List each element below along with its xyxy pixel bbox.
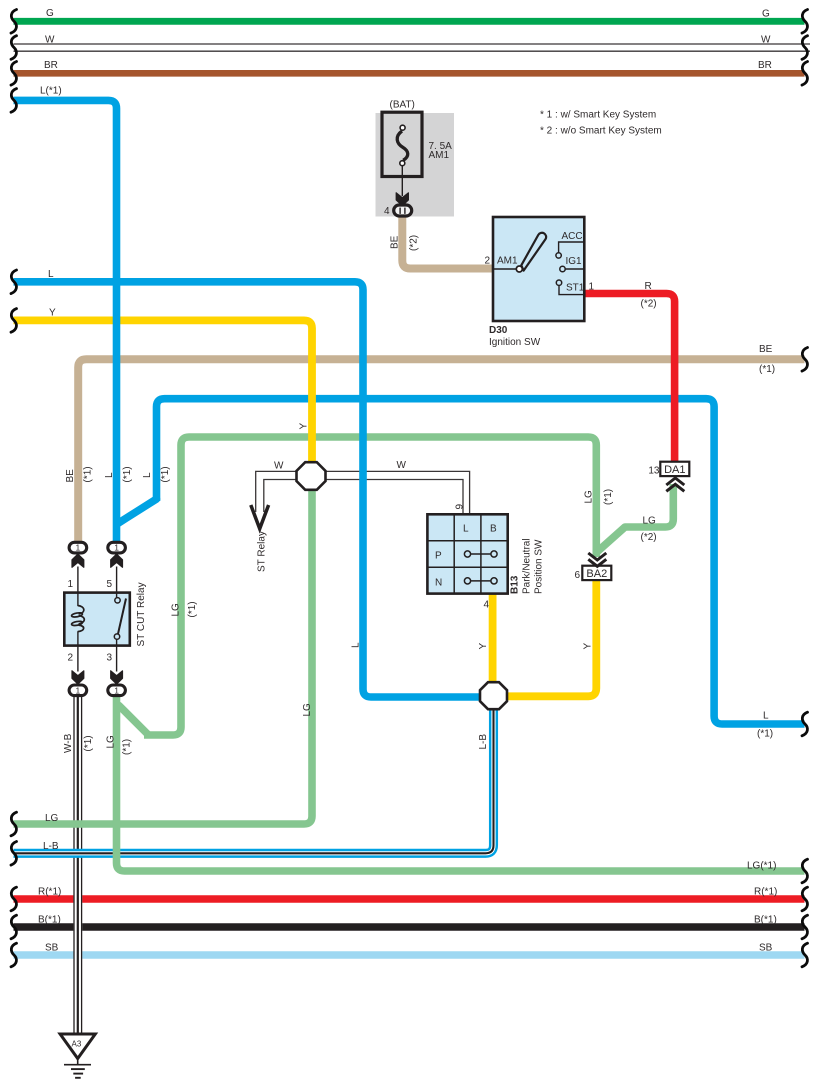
svg-text:ST1: ST1 bbox=[566, 283, 585, 294]
switch B13 park/neutral table bbox=[427, 514, 507, 593]
svg-text:B(*1): B(*1) bbox=[754, 915, 777, 926]
D30 labels bbox=[484, 231, 594, 348]
svg-text:LG: LG bbox=[643, 516, 657, 527]
svg-text:BE: BE bbox=[390, 235, 401, 249]
arrow down into connector II bbox=[396, 193, 408, 206]
svg-text:B: B bbox=[490, 524, 497, 535]
relay arrow down pin3 bbox=[111, 671, 123, 684]
connector 1 relay pin5 top bbox=[108, 542, 126, 553]
svg-text:W: W bbox=[761, 35, 771, 46]
wire BE tan rail to left vertical bbox=[78, 359, 804, 541]
wire LG(*1) green: relay pin3 down to bottom rail right bbox=[117, 697, 805, 871]
B13 table labels bbox=[435, 524, 497, 611]
svg-text:B(*1): B(*1) bbox=[38, 915, 61, 926]
svg-text:BE: BE bbox=[65, 469, 76, 483]
svg-text:SB: SB bbox=[759, 943, 773, 954]
wire L blue diagonal merge into x116 column bbox=[117, 499, 157, 524]
svg-text:1: 1 bbox=[114, 685, 119, 695]
connector 1 relay pin2 bottom bbox=[69, 685, 87, 696]
connector 1 relay pin3 bottom bbox=[108, 685, 126, 696]
D30 ST1 terminal bbox=[559, 286, 584, 295]
svg-text:BA2: BA2 bbox=[586, 568, 607, 580]
wire Y yellow rail to octagon J1 bbox=[14, 320, 313, 463]
wire W right arm octagon to B13 pin 9 bbox=[322, 471, 470, 514]
svg-text:L: L bbox=[763, 711, 769, 722]
relay arrow up pin5 bbox=[111, 554, 123, 567]
label R (*2) red wire bbox=[641, 281, 657, 310]
node labels: left rail names bbox=[38, 8, 62, 954]
svg-text:1: 1 bbox=[76, 543, 81, 553]
svg-text:6: 6 bbox=[574, 570, 580, 581]
svg-text:L: L bbox=[350, 642, 361, 648]
node octagon J1 bbox=[297, 462, 326, 490]
svg-text:(*1): (*1) bbox=[122, 466, 133, 482]
wire LG(*1) green: up column x181, top row y437, down to BA2 chevron bbox=[144, 437, 596, 735]
svg-text:LG: LG bbox=[302, 703, 313, 717]
relay pin5 line bbox=[116, 567, 118, 599]
svg-text:(*1): (*1) bbox=[757, 729, 773, 740]
wire L(*1) blue top rail down column x116 to relay pin5 bbox=[14, 100, 117, 541]
relay coil bbox=[71, 606, 84, 632]
svg-text:L-B: L-B bbox=[43, 841, 59, 852]
svg-text:LG(*1): LG(*1) bbox=[747, 861, 776, 872]
svg-text:L: L bbox=[142, 472, 153, 478]
svg-text:Y: Y bbox=[583, 643, 594, 650]
svg-text:1: 1 bbox=[589, 282, 595, 293]
svg-text:9: 9 bbox=[454, 504, 465, 510]
wire G green rail bbox=[14, 18, 805, 25]
svg-text:G: G bbox=[762, 9, 770, 20]
svg-text:IG1: IG1 bbox=[566, 256, 583, 267]
connector 1 relay pin1 top bbox=[69, 542, 87, 553]
svg-text:R: R bbox=[645, 281, 652, 292]
connector DA1 pin 13 bbox=[660, 462, 689, 476]
DA1 BA2 labels bbox=[586, 464, 685, 580]
svg-text:(*2): (*2) bbox=[409, 235, 420, 251]
wire L blue rail2 to octagon J2 via x363 bbox=[14, 282, 490, 697]
wire LG(*2) green: DA1 to BA2 branch bbox=[598, 484, 674, 552]
svg-text:A3: A3 bbox=[72, 1040, 82, 1049]
svg-text:2: 2 bbox=[67, 653, 73, 664]
ground A3 bbox=[60, 1034, 95, 1059]
svg-text:SB: SB bbox=[45, 943, 59, 954]
wire BR brown rail bbox=[14, 70, 805, 77]
op D30 ignition switch box bbox=[493, 217, 584, 321]
svg-text:BE: BE bbox=[759, 344, 773, 355]
svg-text:(*2): (*2) bbox=[641, 532, 657, 543]
D30 AM1 contact line bbox=[493, 268, 517, 270]
wire Y yellow: B13 pin4 to octagon J2 bbox=[489, 594, 497, 684]
svg-text:1: 1 bbox=[76, 685, 81, 695]
relay pin3 line bbox=[116, 639, 118, 671]
connector II pin 4 bbox=[394, 205, 412, 216]
relay arrow down pin2 bbox=[72, 671, 84, 684]
relay switch contacts bbox=[115, 598, 120, 603]
svg-text:L: L bbox=[463, 524, 469, 535]
relay pin2 line bbox=[77, 631, 79, 671]
svg-text:LG: LG bbox=[583, 490, 594, 504]
svg-text:LG: LG bbox=[171, 603, 182, 617]
svg-text:DA1: DA1 bbox=[664, 464, 685, 476]
svg-text:4: 4 bbox=[384, 206, 390, 217]
svg-text:R(*1): R(*1) bbox=[754, 887, 777, 898]
relay ST CUT box bbox=[64, 593, 130, 646]
wire LG green: octagon J1 down to LG rail left bbox=[14, 488, 313, 824]
DA1 chevrons up bbox=[666, 478, 684, 491]
svg-text:5: 5 bbox=[106, 579, 112, 590]
svg-text:N: N bbox=[435, 578, 442, 589]
svg-text:B13: B13 bbox=[510, 575, 521, 594]
svg-text:L: L bbox=[104, 472, 115, 478]
wire SB light blue rail bbox=[14, 951, 805, 959]
svg-text:Y: Y bbox=[299, 423, 310, 430]
svg-text:* 1 : w/ Smart Key System: * 1 : w/ Smart Key System bbox=[540, 110, 656, 121]
relay arrow up pin1 bbox=[72, 554, 84, 567]
B13 N row contacts bbox=[468, 580, 495, 582]
svg-text:1: 1 bbox=[67, 579, 73, 590]
svg-text:W: W bbox=[45, 35, 55, 46]
fuse background panel bbox=[376, 113, 455, 217]
svg-text:(*1): (*1) bbox=[122, 739, 133, 755]
fuse 7.5A AM1 box bbox=[382, 112, 422, 176]
svg-text:* 2 : w/o Smart Key System: * 2 : w/o Smart Key System bbox=[540, 126, 662, 137]
svg-text:(*2): (*2) bbox=[641, 299, 657, 310]
svg-text:P: P bbox=[435, 551, 442, 562]
note smart key legend bbox=[540, 110, 662, 137]
svg-text:(*1): (*1) bbox=[160, 466, 171, 482]
wire Y yellow: octagon J2 to BA2 bbox=[496, 580, 596, 696]
wire BE tan: BAT fuse to D30 AM1 bbox=[402, 217, 493, 269]
svg-text:3: 3 bbox=[106, 653, 112, 664]
svg-text:ST CUT Relay: ST CUT Relay bbox=[136, 582, 147, 646]
wire W-B white/black: relay pin2 to ground A3 bbox=[74, 697, 82, 1034]
svg-text:1: 1 bbox=[114, 543, 119, 553]
svg-text:Ignition SW: Ignition SW bbox=[489, 337, 541, 348]
svg-text:2: 2 bbox=[484, 256, 490, 267]
svg-text:L(*1): L(*1) bbox=[40, 86, 62, 97]
svg-text:(*1): (*1) bbox=[603, 489, 614, 505]
svg-text:L-B: L-B bbox=[478, 734, 489, 750]
svg-text:(*1): (*1) bbox=[83, 466, 94, 482]
svg-text:D30: D30 bbox=[489, 325, 508, 336]
svg-text:ACC: ACC bbox=[562, 231, 583, 242]
svg-text:(*1): (*1) bbox=[759, 364, 775, 375]
ST Relay arrow bbox=[251, 505, 269, 529]
fuse element symbol bbox=[397, 131, 408, 196]
svg-text:BR: BR bbox=[44, 60, 58, 71]
B13 P row contacts bbox=[468, 553, 495, 555]
svg-text:R(*1): R(*1) bbox=[38, 887, 61, 898]
wire B(*1) black rail bbox=[14, 923, 805, 931]
svg-text:(*1): (*1) bbox=[83, 735, 94, 751]
svg-text:LG: LG bbox=[105, 735, 116, 749]
svg-text:Park/Neutral: Park/Neutral bbox=[522, 538, 533, 594]
node labels: right rail names bbox=[747, 9, 777, 954]
label LG (*2) green branch bbox=[641, 516, 657, 544]
svg-text:W: W bbox=[397, 460, 407, 471]
svg-text:ST Relay: ST Relay bbox=[257, 531, 268, 572]
svg-text:Position SW: Position SW bbox=[534, 539, 545, 594]
svg-text:AM1: AM1 bbox=[429, 150, 450, 161]
W labels near octagon J1 bbox=[274, 460, 407, 472]
wire W left arm octagon to ST Relay arrow bbox=[256, 471, 300, 512]
svg-text:LG: LG bbox=[45, 813, 59, 824]
svg-text:4: 4 bbox=[483, 600, 489, 611]
node octagon J2 bbox=[480, 682, 507, 709]
wire R red: D30 ST1 to DA1 bbox=[584, 294, 675, 464]
svg-text:Y: Y bbox=[478, 643, 489, 650]
relay pin1 line bbox=[77, 567, 79, 607]
svg-text:L: L bbox=[48, 269, 54, 280]
svg-text:13: 13 bbox=[648, 466, 660, 477]
wire LG green: relay pin3 diagonal branch bbox=[119, 706, 148, 735]
svg-text:(BAT): (BAT) bbox=[390, 99, 415, 110]
svg-text:W-B: W-B bbox=[63, 733, 74, 753]
svg-text:G: G bbox=[46, 8, 54, 19]
fuse labels bbox=[384, 99, 452, 217]
wire W white rail top bbox=[14, 44, 811, 51]
D30 lever wedge bbox=[521, 233, 546, 271]
svg-text:Y: Y bbox=[49, 308, 56, 319]
svg-text:W: W bbox=[274, 461, 284, 472]
svg-text:(*1): (*1) bbox=[187, 601, 198, 617]
BA2 chevrons down bbox=[588, 553, 606, 566]
wire L blue row4: from x156 corner to right, down, to right edge bbox=[157, 399, 805, 724]
wire L-B blue/black thin: octagon J2 down and left rail bbox=[14, 700, 494, 853]
wire R(*1) red rail bbox=[14, 895, 805, 903]
relay pin number labels bbox=[67, 579, 112, 664]
svg-text:BR: BR bbox=[758, 60, 772, 71]
D30 ACC terminal bbox=[559, 242, 584, 253]
connector BA2 pin 6 bbox=[582, 566, 611, 580]
D30 IG1 terminal bbox=[565, 268, 584, 270]
svg-text:AM1: AM1 bbox=[497, 256, 518, 267]
